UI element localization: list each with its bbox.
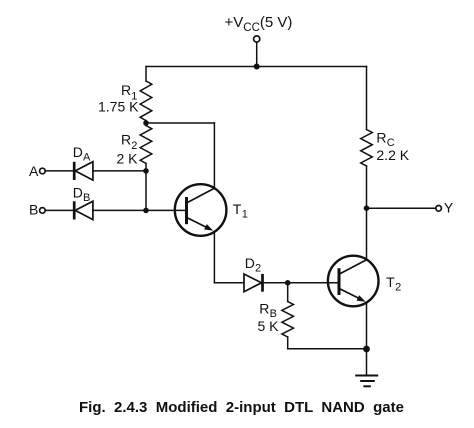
svg-text:D: D [73,144,83,160]
svg-text:B: B [29,202,38,218]
svg-text:2: 2 [395,282,401,294]
svg-text:T: T [233,201,242,217]
svg-text:D: D [245,255,255,271]
svg-text:Y: Y [444,199,454,215]
svg-text:Fig. 2.4.3 Modified 2-input DT: Fig. 2.4.3 Modified 2-input DTL NAND gat… [79,399,404,416]
svg-text:1.75 K: 1.75 K [98,98,139,114]
svg-text:R: R [121,132,131,148]
svg-text:A: A [29,163,39,179]
svg-text:5 K: 5 K [258,318,280,334]
svg-text:R: R [259,300,269,316]
svg-text:(5 V): (5 V) [260,14,293,31]
svg-text:2: 2 [255,263,261,275]
svg-text:B: B [83,192,90,204]
svg-text:+V: +V [225,14,244,31]
svg-text:T: T [386,274,395,290]
svg-text:R: R [121,82,131,98]
svg-text:A: A [83,152,91,164]
svg-text:1: 1 [242,209,248,221]
svg-text:2 K: 2 K [117,151,139,167]
svg-text:R: R [376,129,386,145]
svg-text:CC: CC [243,22,260,34]
svg-text:D: D [73,185,83,201]
svg-text:2.2 K: 2.2 K [376,147,409,163]
